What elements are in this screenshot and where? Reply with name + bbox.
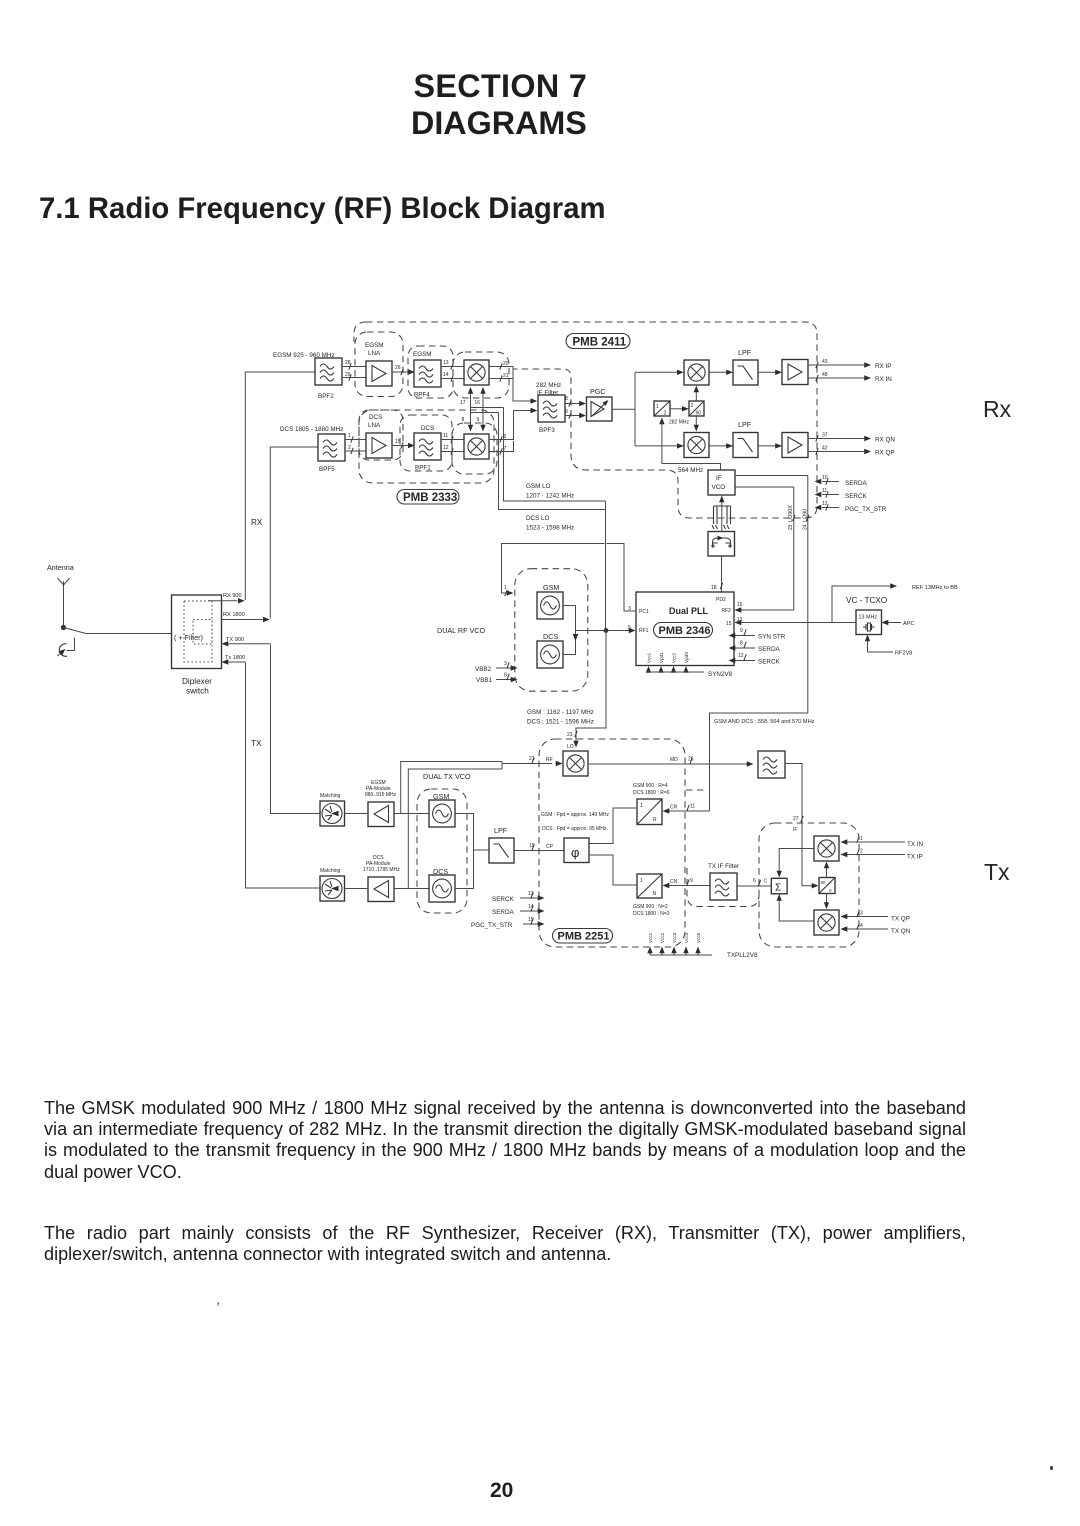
SERCK input pin 12 (735, 660, 755, 662)
svg-text:1: 1 (640, 878, 643, 884)
svg-text:PMB 2333: PMB 2333 (403, 492, 457, 504)
BPF3 to PGC wires, pins 8/9 (565, 404, 580, 416)
svg-text:23: 23 (567, 732, 573, 738)
amplifier EGSM LNA (366, 361, 392, 386)
TX QN input pin 4 (847, 928, 888, 930)
stray apostrophe mark (215, 1300, 220, 1314)
diplexer inner dotted path A (184, 601, 212, 662)
svg-text:GSM LO: GSM LO (526, 483, 551, 490)
net LO90 vertical, pin 24 (807, 476, 809, 714)
svg-text:27: 27 (793, 816, 799, 822)
wire TX1800 into diplexer (229, 661, 246, 663)
svg-text:DUAL RF VCO: DUAL RF VCO (437, 626, 485, 635)
PMB 2346 pill label (654, 623, 713, 638)
svg-text:LPF: LPF (738, 420, 752, 429)
svg-text:1710..1785 MHz: 1710..1785 MHz (363, 867, 400, 873)
summer (771, 878, 787, 894)
svg-text:PGC_TX_STR: PGC_TX_STR (845, 506, 887, 513)
svg-text:13: 13 (528, 891, 534, 897)
svg-text:2: 2 (348, 445, 351, 451)
RX IP output, pin 43 (808, 364, 864, 366)
mixer output pins 20/21 (489, 367, 531, 402)
section heading 7.1 (39, 194, 606, 223)
CN input pin 9 (669, 885, 711, 887)
svg-text:282 MHz: 282 MHz (536, 382, 561, 389)
svg-text:Antenna: Antenna (47, 563, 74, 572)
TX IF filter (710, 873, 737, 900)
PGC output split to I/Q mixers (612, 372, 678, 446)
oscillator GSM RF VCO (537, 592, 563, 619)
IF VCO input arrow from resonator (719, 496, 724, 503)
wire VCO to PA (GSM row) (394, 813, 429, 815)
LO feeds into DCS mixer, pins 8/9 (468, 425, 473, 432)
90deg to TX I mixer (826, 867, 828, 878)
mixer TX I (814, 836, 839, 861)
PMB 2333 dashed outline (359, 410, 494, 483)
svg-text:SERDA: SERDA (758, 646, 780, 653)
svg-text:43: 43 (822, 359, 828, 365)
svg-text:RF1: RF1 (639, 628, 649, 634)
svg-text:DCS LO: DCS LO (526, 515, 550, 522)
svg-text:RX QN: RX QN (875, 437, 895, 444)
TX offset mixer (563, 751, 588, 776)
564 MHz resonator (714, 506, 731, 524)
RF LO drop to TX mixer (576, 631, 606, 742)
svg-text:VCO: VCO (712, 484, 726, 491)
svg-text:Tx: Tx (984, 859, 1010, 885)
body paragraph 2 (44, 1223, 966, 1266)
supply bus TXPLL2V8 (650, 954, 712, 956)
svg-text:TX QN: TX QN (891, 928, 911, 935)
oscillator GSM TX VCO (429, 800, 455, 827)
svg-text:VBB1: VBB1 (476, 677, 493, 684)
svg-text:25: 25 (688, 757, 694, 763)
svg-text:1207 · 1242 MHz: 1207 · 1242 MHz (526, 493, 574, 500)
svg-text:SYN2V8: SYN2V8 (708, 671, 733, 678)
PMB 2251 dashed outline (539, 739, 685, 947)
wire LNA to BPF4, pin 26 (392, 371, 409, 373)
svg-text:15: 15 (528, 917, 534, 923)
wire LNA to BPF1, pin 15 (392, 445, 409, 447)
power amplifier GSM (368, 802, 394, 827)
svg-text:Matching: Matching (320, 793, 341, 799)
svg-text:24: 24 (803, 524, 809, 530)
svg-text:LO90X: LO90X (788, 505, 794, 522)
svg-text:37: 37 (822, 433, 828, 439)
svg-text:MD: MD (670, 757, 678, 763)
svg-text:Vcc2: Vcc2 (660, 932, 665, 943)
PGC_TX_STR input pin 12 (822, 507, 839, 509)
svg-text:SERCK: SERCK (758, 659, 780, 666)
svg-text:9: 9 (690, 878, 693, 884)
diplexer inner dotted path B (193, 620, 212, 645)
svg-text:26: 26 (395, 365, 401, 371)
PLL supply pins Vcc1 Vpd1 Vcc2 VpdS (649, 669, 687, 672)
564 MHz LO distribution wire (710, 713, 808, 811)
svg-text:IF: IF (716, 475, 722, 482)
svg-text:GSM: GSM (543, 583, 559, 592)
mixer EGSM (464, 360, 489, 385)
svg-text:φ: φ (571, 845, 579, 860)
svg-text:90: 90 (821, 880, 827, 885)
PMB 2251 pill label (553, 929, 613, 944)
svg-text:18: 18 (711, 585, 717, 591)
svg-text:LO90: LO90 (803, 509, 809, 522)
svg-text:DCS : Fpd = approx. 95 MHz: DCS : Fpd = approx. 95 MHz (542, 826, 607, 832)
page title: DIAGRAMS (411, 107, 587, 139)
svg-text:12: 12 (822, 501, 828, 507)
wire PA to matching (DCS row) (345, 888, 369, 890)
svg-text:Matching: Matching (320, 868, 341, 874)
bandpass filter BPF4 (414, 360, 441, 387)
svg-text:RX QP: RX QP (875, 450, 895, 457)
svg-text:GSM 900 : N=2: GSM 900 : N=2 (633, 904, 668, 910)
oscillator DCS RF VCO (537, 641, 563, 668)
mixer TX Q (814, 910, 839, 935)
svg-text:SERDA: SERDA (845, 480, 867, 487)
wires BPF5 to DCS LNA, pins 1/2 (345, 440, 366, 452)
Dual PLL PMB 2346 box (636, 592, 734, 666)
svg-text:RF2: RF2 (722, 608, 732, 614)
svg-text:Vcc2: Vcc2 (672, 652, 677, 663)
svg-text:TXPLL2V8: TXPLL2V8 (727, 952, 758, 959)
svg-text:21: 21 (503, 373, 509, 379)
DUAL RF VCO dashed box (515, 569, 588, 692)
antenna feed wire (63, 592, 65, 627)
svg-text:Vcc3: Vcc3 (672, 932, 677, 943)
svg-text:CP: CP (546, 844, 554, 850)
svg-text:VBB2: VBB2 (475, 666, 492, 673)
svg-text:PMB 2411: PMB 2411 (573, 337, 627, 349)
summer output to TX IF filter, pin 6 net C (737, 885, 772, 887)
svg-text:LNA: LNA (368, 422, 381, 429)
svg-text:2: 2 (860, 849, 863, 855)
svg-text:19: 19 (529, 843, 535, 849)
svg-text:6: 6 (753, 878, 756, 884)
phase detector box (564, 838, 589, 863)
svg-text:CN: CN (670, 879, 678, 885)
DUAL TX VCO dashed box (417, 789, 467, 913)
TX900 drop to GSM PA row (271, 645, 321, 814)
svg-text:Diplexer: Diplexer (182, 677, 212, 686)
wire RX900 out of diplexer (208, 600, 238, 602)
page title: SECTION 7 (414, 70, 588, 102)
svg-text:RX 1800: RX 1800 (223, 612, 245, 618)
svg-text:1: 1 (860, 836, 863, 842)
svg-text:CR: CR (670, 805, 678, 811)
svg-text:16: 16 (737, 602, 743, 608)
svg-text:PMB 2346: PMB 2346 (659, 625, 711, 637)
wires BPF2 to LNA, pins 28/29 (342, 367, 366, 378)
svg-text:DCS: DCS (421, 425, 434, 432)
amplifier Q (782, 433, 808, 458)
svg-text:RX IN: RX IN (875, 376, 892, 383)
wire mixer to LPF Q (709, 445, 727, 447)
svg-text:1: 1 (640, 803, 643, 809)
PMB 2333 pill label (397, 490, 459, 505)
svg-text:SYN STR: SYN STR (758, 634, 786, 641)
svg-text:PC1: PC1 (639, 609, 649, 615)
svg-text:TX IP: TX IP (907, 854, 923, 861)
wire detector to Dual PLL pin 18 (721, 556, 723, 592)
TX IP input pin 2 (847, 854, 905, 856)
wire PA to matching (GSM row) (345, 813, 369, 815)
APC input (888, 622, 901, 624)
IF VCO box (708, 470, 735, 495)
svg-text:14: 14 (443, 372, 449, 378)
phase det to N divider (589, 855, 637, 885)
RX900 riser to BPF2 (245, 372, 315, 600)
PMB2251 supply pins Vcc1..Vcc5 (650, 950, 698, 956)
svg-text:VC - TCXO: VC - TCXO (846, 596, 887, 605)
wire mixer to LPF I (709, 371, 727, 373)
svg-text:3: 3 (504, 661, 507, 667)
90deg to TX Q mixer (826, 894, 828, 904)
svg-text:PGC_TX_STR: PGC_TX_STR (471, 922, 513, 929)
svg-text:17: 17 (460, 400, 466, 406)
svg-text:1523 - 1598 MHz: 1523 - 1598 MHz (526, 525, 574, 532)
amplifier I (782, 360, 808, 385)
PMB 2411 pill label (566, 334, 630, 349)
RF2V8 input (867, 640, 869, 652)
svg-text:564 MHz: 564 MHz (678, 467, 703, 474)
RX IN output, pin 48 (808, 377, 864, 379)
svg-text:11: 11 (690, 804, 695, 810)
divider 1/2 (654, 401, 670, 416)
MD output bandpass filter (758, 751, 785, 778)
mixer DCS outputs pins 6/7 (489, 411, 531, 452)
VCO outputs join (563, 606, 576, 655)
wire 1/2 to 90deg (670, 408, 683, 410)
wire VCO to PA (DCS row) (394, 888, 429, 890)
svg-text:12: 12 (738, 653, 744, 659)
svg-text:( + Filter): ( + Filter) (174, 633, 203, 642)
svg-text:23: 23 (788, 524, 794, 530)
svg-text:1: 1 (504, 585, 507, 591)
mixer RX I (684, 360, 709, 385)
power amplifier DCS (368, 877, 394, 902)
svg-text:EGSM: EGSM (413, 351, 432, 358)
switch arm (64, 628, 172, 634)
wire RX1800 out of diplexer (222, 619, 263, 621)
svg-text:13 MHz: 13 MHz (859, 615, 878, 621)
svg-text:PMB 2251: PMB 2251 (558, 931, 610, 943)
svg-text:12: 12 (443, 445, 449, 451)
summer input from Q mixer (779, 900, 814, 922)
wire LPF to amp I (758, 371, 776, 373)
90deg to Q mixer (695, 416, 697, 426)
svg-text:8: 8 (740, 641, 743, 647)
RF VCO output into RF1 (576, 630, 630, 632)
svg-text:42: 42 (822, 446, 828, 452)
svg-text:TX IN: TX IN (907, 841, 924, 848)
mixer RX Q (684, 433, 709, 458)
LO feeds into EGSM mixer, pins 17/16 (471, 391, 504, 426)
svg-text:4: 4 (860, 923, 863, 929)
EGSM BPF4 dashed group (408, 346, 453, 398)
lowpass filter LPF Q (733, 433, 758, 458)
svg-text:Vcc1: Vcc1 (647, 652, 652, 663)
wire LPF to amp Q (758, 445, 776, 447)
svg-text:29: 29 (345, 372, 351, 378)
stray speck right (1050, 1466, 1053, 1470)
svg-text:1: 1 (656, 404, 659, 410)
svg-text:LO: LO (567, 744, 574, 750)
svg-text:Σ: Σ (775, 883, 781, 894)
page number 20 (490, 1480, 513, 1501)
svg-text:R: R (653, 817, 657, 823)
svg-text:Vcc4: Vcc4 (684, 932, 689, 943)
svg-text:RF2V8: RF2V8 (895, 651, 912, 657)
svg-text:9: 9 (740, 628, 743, 634)
DCS LNA dashed group (359, 410, 403, 460)
feedback divider N (637, 874, 662, 898)
RX1800 riser to BPF5 (270, 447, 318, 619)
90deg to I mixer (695, 391, 697, 401)
EGSM mixer dashed group (453, 352, 509, 398)
svg-text:switch: switch (186, 687, 209, 696)
svg-text:2: 2 (664, 411, 667, 417)
antenna symbol (58, 578, 70, 592)
svg-text:Vcc5: Vcc5 (696, 932, 701, 943)
svg-text:LNA: LNA (368, 350, 381, 357)
bandpass filter BPF5 (318, 434, 345, 461)
svg-text:TX 900: TX 900 (226, 637, 244, 643)
matching network GSM (320, 801, 345, 826)
svg-text:15: 15 (726, 621, 732, 627)
svg-text:DCS 1805 - 1880 MHz: DCS 1805 - 1880 MHz (280, 426, 343, 433)
switch node dot (61, 625, 66, 630)
phase shifter 90deg TX (819, 878, 835, 894)
svg-text:TX IF Filter: TX IF Filter (708, 863, 739, 870)
svg-text:9: 9 (477, 417, 480, 423)
wires BPF4 to mixer, pins 13/14 (441, 367, 464, 379)
diplexer switch box (172, 595, 222, 669)
svg-text:11: 11 (443, 433, 448, 439)
GSM LO pair down (499, 408, 606, 510)
svg-text:DCS : 1521 - 1596 MHz: DCS : 1521 - 1596 MHz (527, 719, 594, 726)
summer input from I mixer (779, 849, 814, 872)
svg-text:DUAL TX VCO: DUAL TX VCO (423, 772, 471, 781)
svg-text:PGC: PGC (590, 387, 606, 396)
svg-text:RF: RF (546, 757, 553, 763)
svg-text:21: 21 (529, 756, 535, 762)
IF filter BPF3 (538, 395, 565, 422)
svg-text:10: 10 (822, 475, 828, 481)
TX VCO tune line from LPF (455, 814, 489, 889)
svg-text:RX 900: RX 900 (223, 593, 242, 599)
net LO90X vertical, pin 23 (793, 487, 795, 610)
svg-text:IF: IF (793, 827, 797, 833)
SYN STR input pin 9 (735, 635, 755, 637)
svg-text:Vcc1: Vcc1 (648, 932, 653, 943)
svg-text:282 MHz: 282 MHz (669, 420, 690, 426)
phase shifter 90deg RX (689, 401, 704, 416)
TX IN input pin 1 (847, 841, 905, 843)
matching network DCS (320, 876, 345, 901)
SERDA input pin 10 (822, 481, 839, 483)
svg-text:880..915 MHz: 880..915 MHz (365, 792, 397, 798)
SERDA input pin 8 (735, 647, 755, 649)
quadrature detector box (708, 532, 735, 557)
svg-text:BPF2: BPF2 (318, 393, 334, 400)
svg-text:LPF: LPF (738, 348, 752, 357)
svg-text:8: 8 (462, 417, 465, 423)
svg-text:11: 11 (822, 488, 827, 494)
lowpass filter LPF I (733, 360, 758, 385)
TX QP input pin 3 (847, 916, 888, 918)
TCXO output riser to REF (832, 586, 890, 623)
CR input pin 11 (669, 810, 710, 812)
IF feedback into divider (661, 423, 663, 464)
TX IF filter dashed enclosure (686, 790, 759, 907)
PMB 2411 outline (366, 322, 817, 518)
svg-text:SERCK: SERCK (845, 493, 867, 500)
svg-text:N: N (653, 891, 657, 897)
phase det to R divider (589, 808, 637, 844)
IF VCO outputs to LO90/LO90X (735, 476, 808, 488)
svg-text:GSM : Fpd = approx. 140 MHz: GSM : Fpd = approx. 140 MHz (541, 812, 609, 818)
DCS mixer dashed group (452, 423, 497, 474)
svg-text:16: 16 (475, 400, 481, 406)
svg-text:DCS 1800 : R=6: DCS 1800 : R=6 (633, 790, 670, 796)
svg-text:1: 1 (348, 433, 351, 439)
RX QN output, pin 37 (808, 438, 864, 440)
IF VCO feedback wire (662, 464, 721, 471)
svg-text:2: 2 (691, 403, 694, 409)
svg-text:BPF3: BPF3 (539, 427, 555, 434)
svg-text:GSM 900 : R=4: GSM 900 : R=4 (633, 783, 668, 789)
svg-text:Vpd1: Vpd1 (659, 652, 664, 663)
mixer output MD pin 25 (588, 763, 747, 765)
amplifier DCS LNA (366, 433, 392, 458)
svg-text:EGSM: EGSM (365, 342, 384, 349)
VC-TCXO box (856, 610, 882, 635)
svg-text:APC: APC (903, 621, 915, 627)
svg-text:14: 14 (528, 904, 534, 910)
svg-text:8: 8 (565, 396, 568, 402)
svg-text:GSM AND DCS : 558, 564 and 570: GSM AND DCS : 558, 564 and 570 MHz (714, 719, 815, 725)
svg-text:RX IP: RX IP (875, 363, 891, 370)
TX IF dashed box (759, 823, 859, 947)
wire TX900 into diplexer (229, 643, 271, 645)
wires BPF1 to mixer, pins 11/12 (441, 440, 464, 452)
svg-text:SERCK: SERCK (492, 896, 514, 903)
svg-text:C: C (764, 879, 768, 885)
TX VCO output bus to RF pin 21 (401, 762, 552, 889)
svg-text:VpdS: VpdS (684, 652, 689, 663)
svg-text:20: 20 (503, 361, 509, 367)
TX1800 drop to DCS PA row (246, 663, 321, 889)
svg-text:DCS: DCS (543, 632, 558, 641)
svg-text:DCS: DCS (369, 414, 382, 421)
svg-text:LPF: LPF (494, 826, 508, 835)
svg-text:PD2: PD2 (716, 597, 726, 603)
svg-text:TX QP: TX QP (891, 916, 910, 923)
svg-text:48: 48 (822, 372, 828, 378)
svg-text:13: 13 (443, 360, 449, 366)
junction node (604, 628, 609, 633)
svg-text:TX: TX (251, 739, 262, 748)
svg-text:BPF4: BPF4 (414, 392, 430, 399)
svg-text:3: 3 (860, 911, 863, 917)
svg-text:BPF1: BPF1 (415, 465, 431, 472)
oscillator DCS TX VCO (429, 875, 455, 902)
EGSM LNA dashed group (355, 332, 403, 397)
PGC variable gain amplifier (587, 397, 613, 421)
svg-text:RX: RX (251, 518, 263, 527)
svg-text:8: 8 (504, 673, 507, 679)
